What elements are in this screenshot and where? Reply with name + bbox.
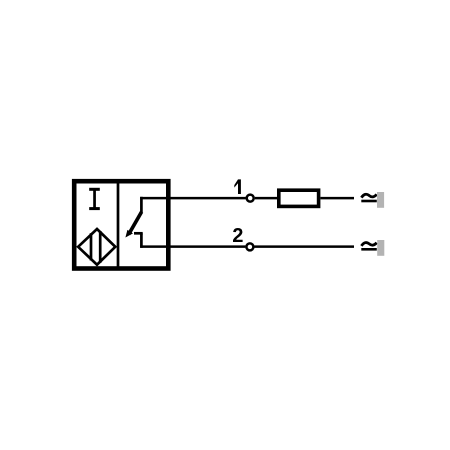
wire: pin 2 line from switch to node 2 (140, 245, 245, 248)
wire: pin 1 line from switch to node 1 (140, 197, 246, 200)
wire: resistor to AC supply (321, 197, 355, 200)
gray stub (bottom, cropped artwork) (377, 240, 384, 256)
sensor body box (74, 181, 168, 268)
resistor R (load) (279, 190, 319, 206)
wire: switch lower terminal stub (140, 233, 143, 248)
wire: switch upper terminal stub (140, 197, 143, 213)
AC supply symbol (bottom) (361, 243, 377, 250)
gray stub (top, cropped artwork) (377, 192, 384, 208)
AC supply symbol (top) (361, 194, 377, 201)
inductive sensor diamond (78, 229, 115, 265)
wire: node 1 to resistor (255, 197, 278, 200)
switch S1 blade (129, 212, 142, 235)
pin label 1 (234, 179, 241, 194)
switch S1 arrow head (125, 230, 133, 238)
pin label 2 (233, 228, 243, 242)
switch S1 fixed contact (134, 232, 143, 235)
letter I (sensor marking) (89, 188, 100, 210)
node 1 terminal circle (247, 195, 254, 202)
node 2 terminal circle (246, 243, 253, 250)
sensor box divider line (117, 181, 120, 268)
wire: node 2 to AC supply (255, 245, 355, 248)
